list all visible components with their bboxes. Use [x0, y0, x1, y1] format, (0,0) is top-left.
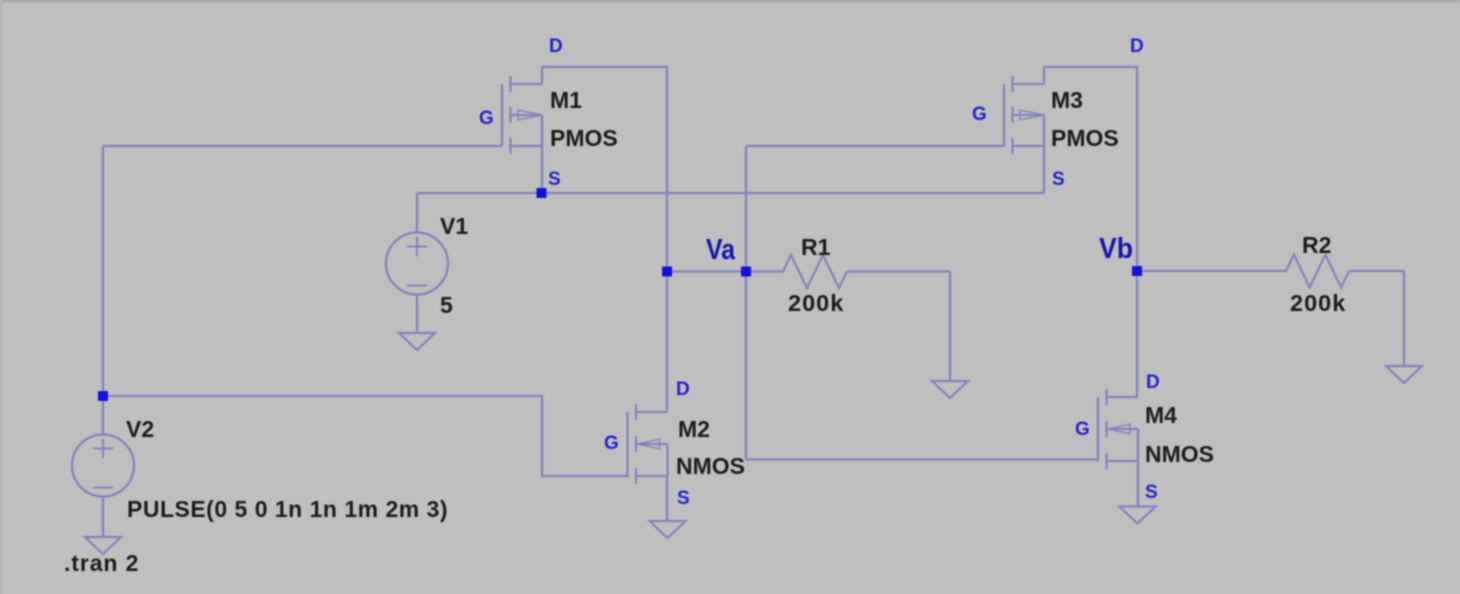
junction node Vb [1132, 266, 1142, 276]
svg-text:G: G [479, 108, 494, 129]
svg-text:NMOS: NMOS [676, 453, 745, 479]
svg-text:D: D [549, 36, 563, 57]
wire Va segment [667, 270, 746, 272]
label V2 [126, 416, 154, 442]
directive .tran 2 [64, 550, 139, 576]
wire Va to M3 gate [746, 145, 1004, 147]
node label Va [706, 234, 736, 266]
wire 5V supply rail [417, 192, 1044, 194]
svg-text:M4: M4 [1145, 402, 1177, 428]
M3 pin label G [972, 104, 987, 125]
node label Vb [1099, 233, 1133, 265]
ground R2 [1386, 366, 1422, 383]
svg-text:NMOS: NMOS [1145, 441, 1214, 467]
junction node Va [741, 267, 751, 277]
value 200k R2 [1290, 290, 1346, 316]
M1 pin label S [548, 169, 561, 190]
voltage source V2 [72, 396, 134, 538]
M2 pin label G [604, 433, 619, 454]
resistor R2 [1137, 255, 1404, 288]
svg-text:5: 5 [440, 292, 453, 318]
svg-text:PMOS: PMOS [1051, 125, 1119, 151]
wire R1 to ground [949, 272, 951, 383]
svg-text:R1: R1 [801, 234, 831, 260]
label M4 [1145, 402, 1177, 428]
ground V1 [399, 333, 435, 350]
resistor R1 [746, 255, 950, 288]
svg-text:M1: M1 [550, 87, 582, 113]
svg-text:D: D [1146, 372, 1160, 393]
svg-text:M3: M3 [1051, 87, 1083, 113]
wire Va vertical [745, 146, 747, 460]
M1 pin label G [479, 108, 494, 129]
M3 pin label D [1130, 36, 1144, 57]
value 5 [440, 292, 453, 318]
svg-text:200k: 200k [1290, 290, 1346, 316]
wire left vertical V2 to node [102, 146, 104, 397]
value 200k R1 [788, 290, 844, 316]
svg-text:S: S [677, 488, 690, 509]
svg-text:S: S [1145, 482, 1158, 503]
ground R1 [932, 381, 968, 398]
svg-text:M2: M2 [678, 416, 710, 442]
svg-text:PMOS: PMOS [550, 125, 618, 151]
wire M3 drain to M4 drain [1044, 67, 1137, 397]
svg-text:PULSE(0 5 0 1n 1n 1m 2m 3): PULSE(0 5 0 1n 1n 1m 2m 3) [127, 496, 448, 522]
M4 pin label G [1075, 419, 1090, 440]
wire M1 drain to M2 drain [542, 67, 667, 412]
svg-text:D: D [676, 379, 690, 400]
label PMOS M3 [1051, 125, 1119, 151]
label R2 [1302, 232, 1331, 258]
M4 pin label D [1146, 372, 1160, 393]
label NMOS M2 [676, 453, 745, 479]
wire V2 node to M2 gate [103, 396, 629, 476]
svg-text:Va: Va [706, 234, 736, 266]
junction V2 node [98, 391, 108, 401]
svg-text:Vb: Vb [1099, 233, 1133, 265]
svg-text:.tran 2: .tran 2 [64, 550, 139, 576]
svg-text:V1: V1 [440, 213, 468, 239]
wire Va to M4 gate [746, 458, 1098, 460]
M1 pin label D [549, 36, 563, 57]
wire V2 output to M1 gate [103, 145, 502, 147]
svg-text:V2: V2 [126, 416, 154, 442]
wire R2 to ground [1403, 271, 1405, 367]
transistor M2 NMOS [628, 404, 668, 522]
svg-text:G: G [604, 433, 619, 454]
voltage source V1 [386, 193, 448, 334]
transistor M3 PMOS [1004, 67, 1044, 193]
M2 pin label S [677, 488, 690, 509]
M3 pin label S [1052, 169, 1065, 190]
svg-text:S: S [548, 169, 561, 190]
svg-text:R2: R2 [1302, 232, 1331, 258]
label R1 [801, 234, 831, 260]
svg-text:200k: 200k [788, 290, 844, 316]
junction M1 source node [537, 188, 547, 198]
value PULSE(0 5 0 1n 1n 1m 2m 3) [127, 496, 448, 522]
label M1 [550, 87, 582, 113]
transistor M4 NMOS [1098, 389, 1138, 507]
junction node Va left [662, 267, 672, 277]
svg-text:D: D [1130, 36, 1144, 57]
ground M2 [650, 521, 686, 538]
svg-text:G: G [1075, 419, 1090, 440]
label NMOS M4 [1145, 441, 1214, 467]
M4 pin label S [1145, 482, 1158, 503]
label V1 [440, 213, 468, 239]
transistor M1 PMOS [502, 67, 542, 193]
label PMOS M1 [550, 125, 618, 151]
svg-text:G: G [972, 104, 987, 125]
svg-text:S: S [1052, 169, 1065, 190]
label M2 [678, 416, 710, 442]
ground V2 [85, 537, 121, 554]
ground M4 [1120, 507, 1156, 524]
label M3 [1051, 87, 1083, 113]
M2 pin label D [676, 379, 690, 400]
